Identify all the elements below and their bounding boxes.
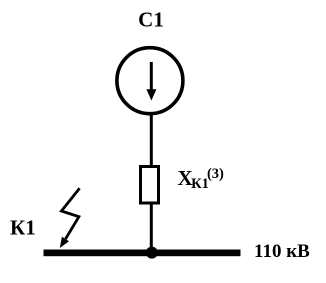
wire source to reactor bbox=[150, 113, 153, 167]
svg-text:110 кВ: 110 кВ bbox=[254, 241, 310, 262]
reactance X_K1 box bbox=[141, 167, 159, 204]
fault lightning bolt K1 bbox=[60, 188, 80, 248]
source U1 circle bbox=[117, 48, 183, 114]
arrow inside source bbox=[146, 62, 156, 101]
svg-text:C1: C1 bbox=[138, 8, 164, 32]
svg-text:К1: К1 bbox=[10, 216, 36, 240]
busbar 110kV bbox=[44, 250, 241, 257]
svg-text:XК1(3): XК1(3) bbox=[178, 166, 225, 192]
node junction dot bbox=[146, 247, 158, 259]
wire reactor to bus bbox=[150, 203, 153, 252]
